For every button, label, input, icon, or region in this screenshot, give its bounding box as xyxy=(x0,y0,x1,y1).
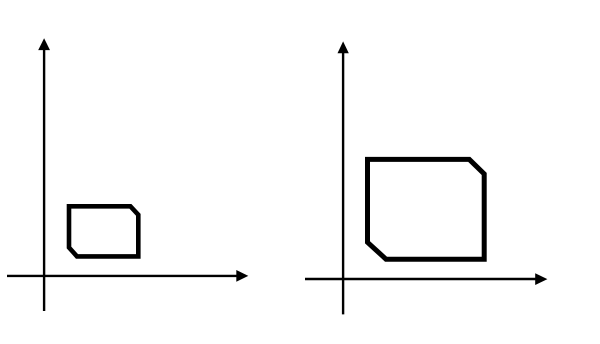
right polygon (large chamfered rectangle) xyxy=(368,159,485,259)
left polygon (small chamfered rectangle) xyxy=(69,206,138,256)
right y-axis arrowhead xyxy=(338,41,349,53)
right y-axis xyxy=(342,53,344,315)
left y-axis arrowhead xyxy=(38,38,50,50)
left x-axis xyxy=(7,275,237,277)
left x-axis arrowhead xyxy=(236,270,248,282)
right x-axis xyxy=(305,278,536,280)
right x-axis arrowhead xyxy=(535,273,547,285)
left y-axis xyxy=(43,50,45,312)
